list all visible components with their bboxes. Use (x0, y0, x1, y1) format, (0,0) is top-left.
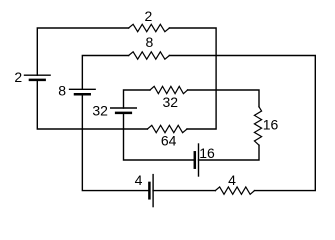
svg-text:8: 8 (146, 34, 154, 50)
resistor R32 zigzag (150, 86, 188, 93)
resistor R16 zigzag (vertical) (254, 107, 261, 145)
wire from R8 right, down right edge, left along bottom to resistor R4 (169, 56, 315, 191)
battery B5 (4V) long plate (152, 175, 154, 207)
resistor R8 zigzag (129, 52, 170, 59)
svg-text:32: 32 (163, 94, 179, 110)
wire from battery B2 long plate up and right along H2 (82, 56, 128, 90)
battery B3 (32V) short plate (116, 112, 131, 115)
svg-text:4: 4 (228, 172, 236, 188)
svg-text:16: 16 (199, 145, 215, 161)
wire from R2 to corner, down, and left along H4 (169, 28, 216, 129)
svg-text:8: 8 (58, 82, 66, 98)
battery B5 (4V) short plate (148, 183, 151, 198)
wire from battery B4 short plate left, up to battery B3 short plate (124, 113, 195, 160)
battery B2 (8V) long plate (70, 88, 96, 90)
wire from R4 left to battery B5 long plate (153, 190, 215, 192)
resistor R4 zigzag (215, 187, 254, 194)
wire from R32 right to corner, down to resistor R16 (188, 90, 259, 107)
svg-text:4: 4 (135, 172, 143, 188)
wire top loop: battery B1 long plate up, across top, down right side, back along resistor 64 wire to battery B1 short plate (37, 28, 128, 75)
svg-text:2: 2 (145, 8, 153, 24)
battery B4 (16V) short plate (194, 152, 197, 167)
svg-text:64: 64 (161, 132, 177, 148)
wire from battery B5 short plate left, up to battery B2 short plate (82, 94, 149, 190)
battery B3 (32V) long plate (111, 107, 137, 109)
battery B2 (8V) short plate (75, 93, 90, 96)
wire from battery B3 long plate up and right along H3 (124, 90, 151, 108)
battery B1 (2V) short plate (30, 79, 45, 82)
svg-text:32: 32 (92, 103, 108, 119)
svg-text:16: 16 (263, 116, 279, 132)
wire from R16 down, left to battery B4 long plate (199, 145, 260, 160)
battery B4 (16V) long plate (198, 144, 200, 176)
resistor R64 zigzag (147, 125, 187, 132)
svg-text:2: 2 (14, 69, 22, 85)
battery B1 (2V) long plate (25, 74, 51, 76)
wire from R64 left to corner, up to battery B1 short plate (37, 80, 147, 129)
resistor R2 zigzag (129, 24, 170, 31)
